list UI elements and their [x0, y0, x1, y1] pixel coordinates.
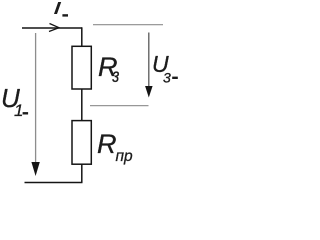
svg-text:3: 3	[163, 70, 171, 86]
wire: top feed horizontal	[22, 27, 82, 29]
label U3-	[152, 51, 178, 86]
node line: top-right reference level	[93, 24, 163, 26]
resistor R3 body	[72, 46, 91, 89]
svg-text:з: з	[112, 65, 120, 87]
label I-	[54, 2, 68, 17]
wire: bottom return horizontal	[25, 182, 83, 184]
current direction chevron	[49, 24, 59, 32]
svg-text:пр: пр	[116, 148, 134, 165]
wire: between R3 and Rpr	[81, 89, 83, 121]
voltage arrow U3- head	[145, 86, 153, 98]
svg-text:1: 1	[14, 101, 23, 120]
node line: middle-right reference level	[90, 105, 149, 107]
label U1-	[1, 83, 28, 120]
label Rpr	[97, 129, 133, 165]
voltage arrow U1- head	[31, 162, 39, 176]
resistor Rpr body	[72, 121, 91, 165]
wire: bottom lead from Rpr	[81, 164, 83, 182]
voltage arrow U3- shaft	[148, 33, 150, 88]
voltage arrow U1- shaft	[35, 33, 37, 163]
label R3	[98, 52, 119, 87]
svg-text:R: R	[97, 129, 117, 159]
wire: vertical drop to R3	[81, 27, 83, 46]
